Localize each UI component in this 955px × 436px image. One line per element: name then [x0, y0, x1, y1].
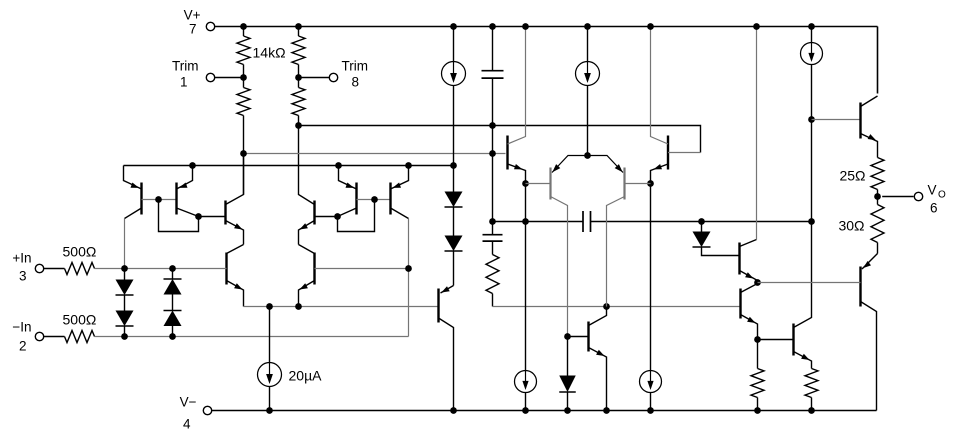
- wire net-G comp to Q16 base: [493, 306, 741, 308]
- transistor Q16 npn driver: [739, 289, 741, 319]
- transistor Q17 npn: [792, 324, 794, 356]
- node Q3-collector net-C: [240, 150, 247, 157]
- node -In riser to Q8 base: [405, 265, 412, 272]
- diode D8: [701, 222, 703, 232]
- resistor R6 500ohm -In: [44, 336, 65, 338]
- node C1 to net-B: [489, 122, 496, 129]
- diode D4 clamp up: [172, 294, 174, 311]
- transistor Q5 pnp mirror: [355, 183, 357, 215]
- node I5 to rail: [522, 407, 529, 414]
- wire cap net right segment: [591, 221, 812, 223]
- node output: [874, 193, 881, 200]
- node Q15 emitter Q16 collector: [754, 279, 761, 286]
- diode D5 series: [445, 192, 463, 208]
- node Q10 collector to rail: [522, 23, 529, 30]
- transistor Q8 npn input right: [313, 253, 315, 285]
- svg-text:500Ω: 500Ω: [63, 244, 97, 260]
- node D1 anode: [121, 265, 128, 272]
- wire Q8 base from -In riser: [315, 268, 409, 270]
- node Q2-collector Q3-base: [195, 213, 202, 220]
- svg-text:3: 3: [19, 269, 27, 284]
- svg-text:7: 7: [189, 22, 197, 37]
- node trim1-tap: [240, 74, 247, 81]
- transistor Q15 npn driver: [738, 243, 740, 275]
- node base tie right: [371, 196, 378, 203]
- node D7 to rail: [564, 407, 571, 414]
- node comp joins cap line: [489, 218, 496, 225]
- transistor Q10 npn follower left: [506, 136, 508, 170]
- node Q5-collector Q7-base: [334, 213, 341, 220]
- node Q6 emitter tap: [405, 162, 412, 169]
- svg-text:500Ω: 500Ω: [63, 312, 97, 328]
- diode D3 clamp up: [172, 269, 174, 280]
- svg-text:1: 1: [180, 75, 188, 90]
- node cap line to driver base column: [808, 218, 815, 225]
- resistor R1 14k upper-left: [243, 27, 245, 37]
- pin 7 V+ terminal: [206, 22, 214, 30]
- svg-text:Trim: Trim: [342, 59, 369, 74]
- resistor R2 lower-left: [243, 78, 245, 88]
- svg-text:14kΩ: 14kΩ: [253, 45, 286, 61]
- diode D1 clamp down: [124, 269, 126, 280]
- node R4-bottom: [295, 122, 302, 129]
- resistor R7 comp: [486, 255, 499, 294]
- node I3 to Q18 base: [808, 116, 815, 123]
- node 20uA tap: [266, 303, 273, 310]
- current source I1: [450, 23, 457, 30]
- wire V+ rail right drop: [877, 27, 879, 94]
- wire mirror-left feedback L: [159, 200, 199, 232]
- current source I4 20uA tail: [269, 307, 271, 363]
- node base tie left: [155, 196, 162, 203]
- node Q5 emitter tap: [335, 162, 342, 169]
- node Q10 emitter to Q12 base: [522, 180, 529, 187]
- svg-text:V: V: [928, 183, 937, 198]
- wire +In to Q4 base: [95, 268, 227, 270]
- wire emitter arm left: [552, 156, 588, 173]
- current source I5: [515, 371, 537, 393]
- svg-text:30Ω: 30Ω: [838, 218, 864, 234]
- resistor R5 500ohm +In: [44, 268, 65, 270]
- transistor Q11 npn follower right: [667, 136, 669, 170]
- wire tail net-F input emitters: [244, 306, 439, 308]
- diode D7: [567, 337, 569, 376]
- transistor Q1 pnp mirror: [140, 183, 142, 215]
- transistor Q18 npn output top: [859, 103, 861, 139]
- wire Q1-Q2 base tie: [142, 199, 177, 201]
- pin 6 VO terminal: [882, 196, 913, 198]
- transistor Q13 pnp gain right: [623, 168, 625, 200]
- node cap to Q10 emitter column: [522, 218, 529, 225]
- transistor Q12 pnp gain left: [549, 168, 551, 200]
- wire trim8 to node: [299, 77, 330, 79]
- svg-text:20µA: 20µA: [289, 368, 323, 384]
- svg-text:O: O: [938, 190, 946, 201]
- pin 2 -In terminal: [35, 332, 43, 340]
- transistor Q4 npn input left: [225, 253, 227, 285]
- svg-text:V−: V−: [180, 395, 197, 410]
- node I1 joins net-E: [450, 162, 457, 169]
- node Q12 collector to Q14 base: [564, 333, 571, 340]
- node R8 to rail: [754, 407, 761, 414]
- svg-text:25Ω: 25Ω: [839, 168, 865, 184]
- resistor R4 lower-right: [298, 78, 300, 88]
- diode D6 series: [445, 236, 463, 252]
- node Q2 emitter tap: [189, 162, 196, 169]
- resistor R9: [805, 369, 818, 398]
- current source I6: [640, 371, 662, 393]
- transistor Q7 npn cascode right: [313, 201, 315, 225]
- node Q13-collector Q14-collector: [603, 303, 610, 310]
- svg-text:V+: V+: [184, 8, 201, 23]
- current source I2: [584, 23, 591, 30]
- svg-text:8: 8: [352, 75, 360, 90]
- node R9 to rail: [808, 407, 815, 414]
- node Q14 emitter to rail: [603, 407, 610, 414]
- node trim8-tap: [295, 74, 302, 81]
- wire net-E mirror emitters: [124, 165, 454, 167]
- svg-text:2: 2: [19, 339, 27, 354]
- node D4 anode: [169, 333, 176, 340]
- wire V- rail: [212, 410, 877, 412]
- wire emitter arm right: [588, 156, 624, 173]
- svg-text:6: 6: [930, 201, 938, 216]
- wire net-C (Q3 collector to Q10 base): [244, 153, 506, 155]
- node D3 cathode-bar: [169, 265, 176, 272]
- diode D2 clamp down: [124, 295, 126, 311]
- node cap to D8: [698, 218, 705, 225]
- node Q15 collector to rail: [753, 23, 760, 30]
- svg-text:Trim: Trim: [172, 59, 199, 74]
- wire net-B (R4 bottom to Q11 base loop): [299, 126, 701, 153]
- transistor Q3 npn cascode left: [224, 201, 226, 225]
- wire -In run: [95, 336, 409, 338]
- wire Q5-Q6 base tie: [357, 199, 391, 201]
- node tail to V- rail: [266, 407, 273, 414]
- pin 4 V- terminal: [203, 406, 211, 414]
- transistor Q14 npn: [587, 322, 589, 352]
- resistor R8: [757, 340, 759, 369]
- current source I3: [808, 23, 815, 30]
- wire Q19 base: [758, 282, 861, 284]
- resistor R10 25ohm: [871, 158, 884, 190]
- svg-text:4: 4: [183, 417, 191, 432]
- capacitor C2: [492, 222, 494, 235]
- capacitor C1: [489, 23, 496, 30]
- wire Q16 emitter to Q17 base: [758, 339, 794, 341]
- node I6 to rail: [647, 407, 654, 414]
- transistor Q19 pnp output bottom: [862, 254, 878, 270]
- node D2 cathode: [121, 333, 128, 340]
- transistor Q2 pnp mirror: [175, 183, 177, 215]
- wire mirror-right feedback L: [338, 200, 375, 232]
- node Q16 emitter node: [754, 336, 761, 343]
- wire V+ rail: [215, 26, 878, 28]
- svg-text:−In: −In: [12, 320, 31, 335]
- wire cap net left segment: [493, 221, 584, 223]
- pin 1 Trim terminal: [206, 73, 214, 81]
- node Q9 collector to rail: [450, 407, 457, 414]
- pin 8 Trim terminal: [329, 73, 337, 81]
- wire Q18 base: [812, 119, 861, 121]
- node Q11 emitter to Q13 base: [647, 180, 654, 187]
- node comp-column net-C: [489, 150, 496, 157]
- resistor R11 30ohm: [877, 197, 879, 205]
- node second stage emitters: [584, 152, 591, 159]
- node Q8 emitter joins: [295, 303, 302, 310]
- node Q11 collector to rail: [647, 23, 654, 30]
- resistor R3 14k upper-right: [298, 27, 300, 37]
- wire trim1 to node: [215, 77, 244, 79]
- transistor Q6 pnp mirror: [389, 183, 391, 215]
- transistor Q9 pnp bias: [441, 286, 454, 294]
- capacitor C3 series: [582, 211, 584, 232]
- node rail-R3: [295, 23, 302, 30]
- pin 3 +In terminal: [35, 264, 43, 272]
- svg-text:+In: +In: [12, 251, 31, 266]
- node rail-R1: [240, 23, 247, 30]
